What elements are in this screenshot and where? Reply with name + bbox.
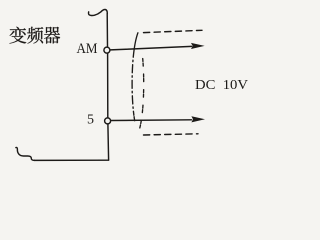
svg-text:5: 5	[87, 113, 94, 128]
terminal 5 circle	[105, 118, 111, 124]
paper background	[0, 0, 252, 173]
dashed shield lead top	[144, 30, 203, 32]
wire break hook top	[88, 9, 107, 15]
dashed shield lead bottom	[144, 134, 199, 135]
wire AM output	[111, 46, 192, 50]
wire 5 output	[111, 119, 192, 122]
arrowhead 5 output	[191, 116, 205, 122]
arrowhead AM output	[191, 43, 205, 49]
label 变频器 (inverter)	[10, 27, 61, 44]
wire below terminal 5 to bottom corner	[107, 124, 110, 160]
terminal AM circle	[104, 47, 110, 53]
svg-text:AM: AM	[77, 41, 98, 57]
shield ellipse (cable screen)	[132, 33, 144, 134]
wire break hook bottom-left	[16, 148, 35, 161]
svg-text:DC 10V: DC 10V	[195, 78, 248, 93]
wire vertical terminal rail	[106, 14, 108, 47]
wire bottom horizontal	[34, 159, 108, 161]
wire between AM and 5 terminals	[107, 53, 109, 117]
